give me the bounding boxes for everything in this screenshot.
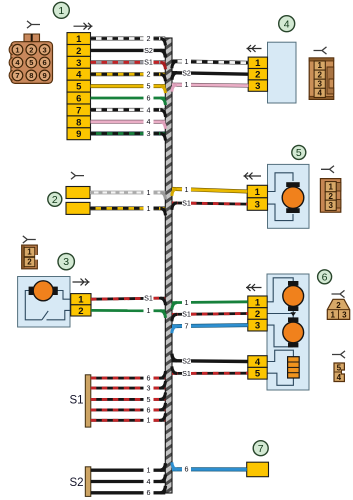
wire block 2 upper (1) — [90, 188, 166, 200]
svg-text:1: 1 — [185, 80, 189, 89]
mating arrow at block 4 — [247, 45, 262, 52]
wire to block 4 pin (1) — [172, 80, 248, 91]
branch symbol at connector X1 — [27, 21, 40, 28]
svg-text:4: 4 — [255, 357, 261, 368]
node 2 : license-plate light label — [48, 192, 62, 206]
pad block 6 (pins 1-3) — [248, 296, 267, 332]
svg-text:6: 6 — [43, 58, 47, 67]
svg-text:1: 1 — [330, 310, 335, 319]
wire pin8 of block 1 (4) — [91, 117, 166, 129]
splice S1 wire (3) — [91, 381, 166, 392]
svg-text:1: 1 — [78, 295, 84, 306]
svg-text:6: 6 — [147, 93, 151, 102]
wire block 3 pin1 (S1) — [91, 294, 166, 305]
svg-text:3: 3 — [317, 79, 322, 88]
svg-text:3: 3 — [76, 58, 81, 69]
pin 9 of connector X1 — [39, 70, 50, 81]
lamp terminal block 2 upper — [66, 187, 90, 199]
module housing of block 6 — [267, 274, 309, 390]
svg-text:6: 6 — [76, 94, 81, 105]
branch symbol at connector X6b — [332, 351, 345, 358]
wire block 3 pin2 (1) — [91, 306, 166, 318]
svg-text:1: 1 — [27, 248, 32, 257]
wire to block 4 pin (S2) — [172, 68, 248, 79]
svg-text:2: 2 — [29, 45, 33, 54]
svg-text:4: 4 — [317, 89, 322, 98]
svg-text:2: 2 — [147, 34, 151, 43]
svg-text:1: 1 — [147, 188, 151, 197]
node 4 : rear lid harness connector label — [279, 16, 295, 32]
connector X3 (2-way) — [22, 245, 39, 269]
motor M3 (washer pump motor) — [29, 281, 58, 301]
pad block 6 (pins 4,5) — [248, 356, 267, 380]
svg-text:3: 3 — [255, 200, 260, 211]
wire pin2 of block 1 (S2) — [91, 46, 166, 58]
svg-text:1: 1 — [147, 416, 151, 425]
svg-text:3: 3 — [147, 384, 151, 393]
svg-text:6: 6 — [322, 271, 328, 283]
svg-text:1: 1 — [147, 204, 151, 213]
svg-text:1: 1 — [147, 466, 151, 475]
wire pin3 of block 1 (S1) — [91, 58, 166, 70]
svg-text:5: 5 — [337, 364, 342, 373]
wire pin5 of block 1 (5) — [91, 82, 166, 94]
svg-text:3: 3 — [255, 321, 260, 332]
svg-text:5: 5 — [296, 147, 302, 159]
module housing of block 4 — [268, 42, 297, 103]
splice S1 wire (6) — [91, 403, 166, 414]
svg-text:8: 8 — [76, 117, 81, 128]
svg-text:6: 6 — [147, 405, 151, 414]
svg-text:4: 4 — [76, 70, 82, 81]
svg-text:7: 7 — [258, 443, 264, 455]
resistor R (blower resistor) — [288, 357, 300, 378]
branch symbol at connector X6a — [332, 290, 345, 297]
svg-text:2: 2 — [328, 192, 333, 201]
svg-text:1: 1 — [255, 297, 261, 308]
svg-text:2: 2 — [336, 301, 341, 310]
pin 2 of connector X1 — [26, 44, 37, 55]
branch symbol at connector X5 — [321, 166, 334, 173]
svg-text:3: 3 — [43, 45, 47, 54]
pad block 5 (pins 1,3) — [247, 185, 267, 210]
mating arrow at block 3 — [73, 279, 90, 286]
pin 3 of connector X5 — [325, 200, 336, 210]
svg-text:S1: S1 — [182, 310, 191, 319]
svg-text:2: 2 — [147, 70, 151, 79]
splice S1 wire (5) — [91, 392, 166, 403]
pin 2 of connector X3 — [24, 257, 35, 266]
wire to block 6 (S1) — [172, 366, 248, 377]
svg-text:1: 1 — [317, 61, 322, 70]
wire to block 6 (S2) — [172, 354, 248, 366]
internal wiring of block 6 — [267, 278, 294, 386]
pad block 3 (pins 1,2) — [71, 294, 91, 317]
connector X6b (2-way 5/4) — [334, 363, 344, 382]
svg-text:4: 4 — [284, 18, 290, 30]
svg-text:3: 3 — [147, 129, 151, 138]
wire to block 7 (6) — [172, 462, 247, 473]
svg-text:4: 4 — [337, 373, 342, 382]
svg-text:8: 8 — [29, 71, 33, 80]
svg-text:4: 4 — [147, 105, 151, 114]
mating arrow at pad 1 — [74, 23, 93, 30]
svg-text:1: 1 — [185, 57, 189, 66]
svg-text:6: 6 — [185, 465, 189, 474]
motor M6a (fan motor 1) — [283, 281, 304, 311]
node 5 : motor label 5 — [292, 145, 306, 159]
pin 8 of connector X1 — [26, 70, 37, 81]
pin 7 of connector X1 — [12, 70, 23, 81]
wire to block 6 (S1) — [172, 310, 248, 322]
splice S1 wire (1) — [91, 413, 166, 424]
svg-text:S1: S1 — [144, 294, 153, 303]
pin 4 of connector X4 — [314, 88, 325, 97]
svg-text:1: 1 — [185, 185, 189, 194]
pin 1 of connector X3 — [24, 247, 35, 256]
splice bar S1 — [85, 375, 91, 427]
node 7 : antenna label — [253, 441, 268, 456]
svg-text:6: 6 — [147, 374, 151, 383]
pin 1 of connector X5 — [325, 182, 336, 192]
branch symbol at connector X4 — [314, 47, 327, 54]
branch symbol at block 2 — [71, 172, 84, 179]
pin 1 of connector X4 — [314, 61, 325, 70]
connector X1 (9-pin socket view) — [9, 34, 52, 83]
svg-text:S1: S1 — [144, 58, 153, 67]
svg-text:5: 5 — [147, 82, 151, 91]
wire to block 6 (1) — [172, 298, 248, 310]
svg-text:1: 1 — [255, 58, 261, 69]
svg-text:2: 2 — [255, 309, 260, 320]
svg-text:4: 4 — [147, 117, 151, 126]
pad block 4 (pins 1-3) — [248, 57, 267, 92]
pin 1 of connector X1 — [12, 44, 23, 55]
svg-text:7: 7 — [15, 71, 19, 80]
mating arrow at block 5 — [244, 173, 262, 180]
svg-text:5: 5 — [76, 82, 82, 93]
svg-text:1: 1 — [328, 183, 333, 192]
lamp terminal block 2 lower — [66, 202, 90, 214]
svg-text:S1: S1 — [70, 395, 84, 407]
motor M6b (fan motor 2) — [283, 317, 304, 347]
terminal block 7 — [247, 462, 269, 477]
svg-text:1: 1 — [147, 306, 151, 315]
svg-text:9: 9 — [43, 71, 47, 80]
wire pin9 of block 1 (3) — [91, 129, 166, 141]
mating arrow at block 6 — [246, 284, 262, 291]
svg-text:S1: S1 — [182, 199, 191, 208]
wire to block 6 (7) — [172, 321, 248, 333]
svg-text:S2: S2 — [182, 68, 191, 77]
splice S2 wire (6) — [91, 486, 166, 497]
motor M5 (washer pump) — [282, 182, 304, 213]
svg-text:7: 7 — [76, 105, 81, 116]
svg-text:4: 4 — [147, 477, 151, 486]
node 1 : instrument-panel harness connector label — [53, 2, 69, 18]
wire to block 5 pin 3 (S1) — [172, 199, 247, 210]
pin 5 of connector X1 — [26, 57, 37, 68]
svg-text:2: 2 — [76, 46, 81, 57]
pin 6 of connector X1 — [39, 57, 50, 68]
pin 3 of connector X1 — [39, 44, 50, 55]
svg-text:2: 2 — [27, 258, 32, 267]
branch symbol at connector X3 — [23, 236, 36, 243]
wire harness trunk — [165, 38, 172, 493]
wire pin7 of block 1 (4) — [91, 105, 166, 117]
wire pin4 of block 1 (2) — [91, 70, 166, 82]
internal wiring of block 3 — [25, 291, 70, 320]
svg-text:3: 3 — [63, 256, 69, 268]
svg-text:2: 2 — [317, 70, 322, 79]
pad block 1 (pins 1-9) — [67, 33, 91, 141]
svg-text:S2: S2 — [70, 477, 84, 489]
svg-text:3: 3 — [255, 81, 260, 92]
node 3 : washer pump label — [58, 253, 74, 269]
svg-text:2: 2 — [255, 70, 260, 81]
connector X6a (trapezoid 3-way) — [327, 299, 349, 319]
svg-text:3: 3 — [328, 201, 333, 210]
junction between fan motors — [290, 312, 296, 316]
svg-text:1: 1 — [255, 187, 261, 198]
svg-text:5: 5 — [29, 58, 33, 67]
pin 4 of connector X1 — [12, 57, 23, 68]
pin 2 of connector X5 — [325, 192, 336, 200]
splice S2 wire (1) — [91, 463, 166, 474]
svg-text:3: 3 — [342, 310, 347, 319]
svg-text:6: 6 — [147, 488, 151, 497]
wire pin6 of block 1 (6) — [91, 93, 166, 105]
splice S1 wire (6) — [91, 371, 166, 382]
svg-text:5: 5 — [255, 369, 261, 380]
wire pin1 of block 1 (2) — [91, 34, 166, 46]
svg-text:S2: S2 — [144, 46, 153, 55]
svg-text:1: 1 — [76, 34, 82, 45]
pin 2 of connector X4 — [314, 70, 325, 79]
svg-text:S1: S1 — [182, 369, 191, 378]
svg-text:2: 2 — [52, 194, 58, 206]
module housing of block 3 — [18, 277, 70, 328]
wire to block 4 pin (1) — [172, 57, 248, 68]
module housing of block 5 — [268, 164, 310, 228]
svg-text:1: 1 — [58, 5, 64, 17]
svg-text:9: 9 — [76, 129, 81, 140]
svg-text:S2: S2 — [182, 356, 191, 365]
internal wiring of block 5 — [268, 173, 294, 221]
wire block 2 lower (1) — [90, 204, 166, 216]
svg-text:1: 1 — [185, 298, 189, 307]
svg-text:2: 2 — [78, 306, 83, 317]
node 6 : motor assembly label — [318, 270, 332, 284]
connector X5 (3-way) — [320, 179, 340, 213]
svg-text:1: 1 — [15, 45, 19, 54]
pin 3 of connector X4 — [314, 79, 325, 88]
wire to block 5 pin 1 (1) — [172, 185, 247, 196]
splice bar S2 — [85, 467, 91, 497]
connector X4 (4-way, side view) — [309, 58, 334, 100]
svg-text:5: 5 — [147, 395, 151, 404]
svg-text:7: 7 — [185, 321, 189, 330]
splice S2 wire (4) — [91, 475, 166, 486]
